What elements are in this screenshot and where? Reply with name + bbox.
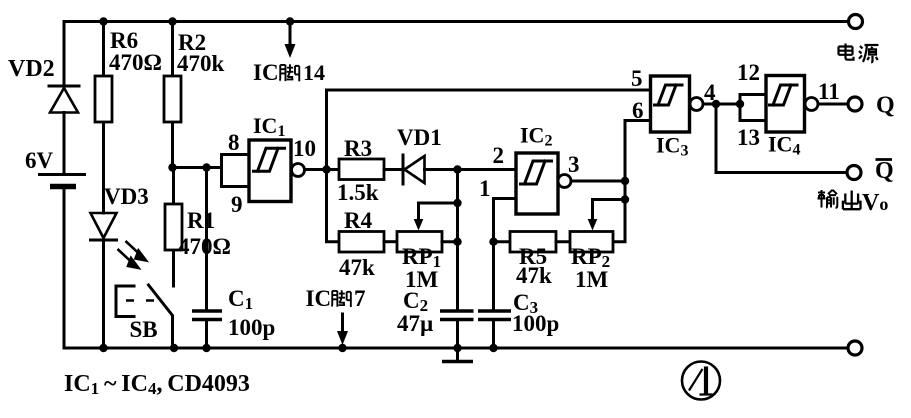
svg-text:Q: Q: [875, 158, 894, 184]
svg-text:6V: 6V: [25, 148, 54, 173]
node IC2 output: [621, 177, 629, 185]
resistor R5: [510, 232, 556, 289]
svg-text:470Ω: 470Ω: [178, 234, 231, 259]
terminal Q: [848, 97, 862, 111]
op-amp IC2 (Schmitt NAND gate): [479, 123, 580, 215]
terminal bottom rail: [848, 341, 862, 355]
svg-text:3: 3: [568, 152, 580, 177]
svg-text:7: 7: [354, 286, 366, 311]
wire output down to RP2: [613, 181, 625, 242]
node SB bottom rail: [170, 344, 178, 352]
op-amp IC1 (Schmitt NAND gate): [222, 113, 317, 217]
node IC4 bracket: [736, 100, 744, 108]
svg-text:12: 12: [737, 60, 760, 85]
svg-text:VD2: VD2: [8, 56, 55, 82]
wire R2 branch: [171, 22, 174, 168]
svg-text:14: 14: [303, 60, 325, 85]
wire R4 to RP1: [384, 240, 397, 243]
node top rail R2 junction: [168, 17, 176, 25]
battery 6V: [25, 148, 86, 187]
label IC pin 14 arrow: [253, 17, 325, 85]
svg-text:1.5k: 1.5k: [337, 180, 379, 205]
wire C1 branch: [205, 168, 208, 349]
wire IC4 output: [818, 103, 848, 106]
label IC pin 7 hanzi: [332, 290, 351, 307]
wire to IC3 pin6: [625, 121, 651, 182]
node RP1 right: [453, 238, 461, 246]
svg-text:47k: 47k: [339, 255, 375, 280]
node R2 bottom junction: [168, 163, 176, 171]
wire feedback to IC3 pin5: [327, 90, 651, 170]
label Qbar: [875, 158, 894, 184]
LED VD3: [91, 184, 149, 268]
wire R6 branch: [102, 22, 105, 214]
label IC pin 14 hanzi: [280, 64, 300, 81]
resistor R1: [165, 204, 231, 259]
capacitor C2: [397, 288, 474, 336]
svg-text:R1: R1: [187, 208, 215, 233]
svg-text:Q: Q: [876, 93, 895, 119]
svg-text:10: 10: [293, 136, 316, 161]
label IC pin 7 arrow: [306, 286, 366, 352]
label output Vo 输出: [818, 190, 889, 216]
node C1 top junction: [202, 163, 210, 171]
svg-text:47k: 47k: [516, 263, 552, 288]
capacitor C1: [192, 286, 275, 340]
wire R3 to VD1: [384, 168, 403, 171]
resistor R4: [339, 208, 384, 280]
node IC3 output junction: [712, 100, 720, 108]
wire IC2 output: [571, 180, 625, 183]
wire left battery branch: [63, 22, 66, 349]
capacitor C3: [478, 290, 559, 336]
node C2 bottom rail: [453, 344, 461, 352]
node top rail R6 junction: [99, 17, 107, 25]
op-amp IC3 (Schmitt NAND gate): [631, 66, 716, 160]
terminal power: [849, 15, 863, 29]
svg-text:6: 6: [632, 98, 644, 123]
svg-text:47µ: 47µ: [397, 311, 433, 336]
svg-text:IC: IC: [253, 60, 279, 85]
wire IC1 input: [173, 166, 222, 169]
diode VD1: [397, 125, 442, 184]
node IC1 output: [322, 165, 330, 173]
svg-text:R3: R3: [344, 136, 372, 161]
svg-text:VD1: VD1: [397, 125, 442, 150]
svg-text:VD3: VD3: [104, 184, 149, 209]
terminal Qbar: [847, 166, 861, 180]
op-amp IC4 (Schmitt NAND gate): [737, 60, 840, 159]
label power 电源: [839, 44, 879, 63]
svg-text:5: 5: [631, 66, 643, 91]
svg-text:IC: IC: [306, 286, 332, 311]
svg-text:470k: 470k: [177, 51, 225, 76]
node R5 left: [489, 238, 497, 246]
resistor R3: [337, 136, 384, 205]
wire IC1 output: [305, 168, 340, 171]
node X after VD1: [453, 165, 461, 173]
wire Qbar branch: [716, 104, 847, 173]
resistor R6: [95, 28, 162, 122]
svg-text:1: 1: [479, 176, 491, 201]
wire down to R4: [327, 170, 340, 242]
wire IC2 pin1: [494, 199, 517, 349]
node VD3 bottom rail: [99, 344, 107, 352]
wire VD3 to bottom rail: [102, 240, 105, 348]
svg-text:9: 9: [231, 192, 243, 217]
wire bottom rail: [64, 347, 848, 350]
node RP1 wiper: [453, 199, 461, 207]
wire top rail: [64, 20, 849, 23]
svg-text:Vo: Vo: [862, 190, 888, 216]
resistor R2: [164, 30, 225, 122]
node C1 bottom rail: [202, 344, 210, 352]
potentiometer RP1: [397, 203, 458, 292]
wire RP1 right: [442, 240, 458, 243]
svg-text:8: 8: [228, 130, 240, 155]
wire R5 to RP2: [556, 240, 570, 243]
svg-text:13: 13: [737, 125, 760, 150]
wire node X vertical: [456, 170, 459, 349]
wire IC3 output: [703, 103, 740, 106]
potentiometer RP2: [570, 200, 625, 293]
switch SB: [116, 285, 173, 348]
svg-text:R4: R4: [344, 208, 373, 233]
diode VD2: [8, 56, 79, 113]
ground: [442, 348, 473, 362]
svg-text:100p: 100p: [228, 315, 275, 340]
wire R1 branch: [172, 168, 175, 287]
wire VD1 to IC2 pin2: [425, 168, 517, 171]
wire R5 left: [494, 240, 511, 243]
node C3 bottom rail: [489, 344, 497, 352]
svg-text:11: 11: [818, 79, 840, 104]
node RP2 wiper tie: [621, 195, 629, 203]
svg-text:100p: 100p: [512, 311, 559, 336]
label figure number 4: [682, 362, 720, 400]
svg-text:2: 2: [493, 143, 505, 168]
svg-text:470Ω: 470Ω: [109, 50, 162, 75]
svg-text:1M: 1M: [575, 267, 609, 292]
svg-text:SB: SB: [130, 317, 158, 342]
